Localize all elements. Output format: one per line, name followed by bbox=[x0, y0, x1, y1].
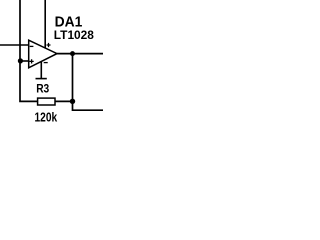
wire: left vertical rail into R3 bbox=[20, 0, 38, 101]
resistor R3 body bbox=[38, 98, 55, 105]
wire: negative supply pin (bottom) bbox=[40, 61, 42, 78]
svg-text:120k: 120k bbox=[35, 111, 58, 125]
op-amp inverting input minus sign bbox=[30, 45, 34, 47]
op-amp DA1 triangle bbox=[29, 40, 57, 68]
wire: op-amp output to right edge bbox=[57, 53, 103, 55]
wire: inverting input from left edge bbox=[0, 44, 29, 46]
wire: non-inverting input stub bbox=[20, 60, 29, 62]
wire: positive supply pin (top) bbox=[44, 0, 46, 48]
node: junction dot on output bbox=[70, 51, 75, 56]
svg-text:R3: R3 bbox=[36, 83, 49, 96]
wire: feedback drop and lower wire to right edge bbox=[73, 54, 104, 111]
negative supply rail bar bbox=[36, 78, 47, 80]
minus sign at negative supply bbox=[44, 62, 48, 64]
node: junction dot at feedback/R3 bbox=[70, 99, 75, 104]
op-amp non-inverting input plus sign bbox=[30, 59, 34, 63]
svg-text:LT1028: LT1028 bbox=[54, 28, 94, 42]
wire: R3 to feedback node bbox=[55, 100, 73, 102]
node: junction dot on rail at + input bbox=[18, 58, 23, 63]
plus sign at positive supply bbox=[47, 43, 51, 47]
